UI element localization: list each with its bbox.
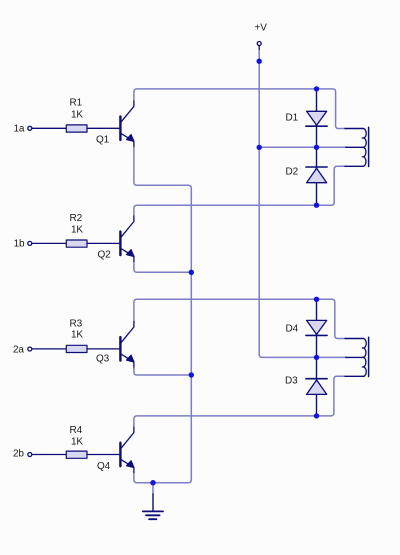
wire Q4 collector to node D <box>134 376 346 426</box>
wire diode branch D1 D2 <box>316 89 318 205</box>
resistor R1 <box>66 125 87 132</box>
junction winding 2 center tap at diode branch <box>314 355 319 360</box>
junction node D (D3 anode) <box>314 413 319 418</box>
svg-text:Q4: Q4 <box>97 461 111 472</box>
svg-text:1K: 1K <box>71 437 83 448</box>
svg-text:1a: 1a <box>14 123 25 134</box>
wire R4 to Q4 base <box>87 454 119 456</box>
transistor Q4 <box>120 426 134 474</box>
svg-text:R2: R2 <box>70 213 83 224</box>
junction node B (D2 anode) <box>314 203 319 208</box>
wire Q1 collector to node A <box>134 89 346 129</box>
resistor R4 <box>66 451 87 458</box>
wire Q2 emitter to common emitter rail <box>134 263 191 273</box>
svg-text:1b: 1b <box>14 238 25 249</box>
wire +V rail down to winding 2 center tap <box>259 50 347 358</box>
diode D3 <box>306 379 327 395</box>
resistor R3 <box>66 345 87 352</box>
ground <box>143 494 163 519</box>
svg-text:2b: 2b <box>13 449 24 460</box>
svg-text:1K: 1K <box>71 330 83 341</box>
wire Q3 collector to node C <box>134 299 346 338</box>
wire common emitter rail segment <box>190 272 192 375</box>
junction +V stub <box>257 59 262 64</box>
svg-text:R3: R3 <box>70 318 83 329</box>
junction common emitter rail Q1 Q2 <box>189 270 194 275</box>
transistor Q1 <box>120 100 134 148</box>
svg-text:2a: 2a <box>13 344 24 355</box>
wire common emitter rail to ground run <box>153 375 191 483</box>
svg-text:Q2: Q2 <box>98 250 112 261</box>
svg-text:Q1: Q1 <box>96 135 110 146</box>
svg-text:D4: D4 <box>286 323 299 334</box>
svg-text:+V: +V <box>255 23 268 34</box>
wire Q1 emitter to common emitter rail <box>134 148 191 273</box>
diode D2 <box>306 167 327 183</box>
wire 2b to R4 <box>32 454 66 456</box>
svg-text:R4: R4 <box>70 425 83 436</box>
wire R3 to Q3 base <box>87 348 119 350</box>
transistor Q2 <box>120 215 134 263</box>
resistor R2 <box>66 240 87 247</box>
input terminal 2a <box>28 347 32 351</box>
wire ground stub <box>152 483 154 494</box>
inductor winding 1 (motor coil L1) <box>345 127 369 166</box>
input terminal 2b <box>28 453 32 457</box>
wire Q4 emitter to ground node <box>134 474 153 483</box>
input terminal 1b <box>28 241 32 245</box>
input terminal 1a <box>28 126 32 130</box>
svg-text:D3: D3 <box>285 376 298 387</box>
svg-text:D1: D1 <box>286 113 299 124</box>
transistor Q3 <box>120 320 134 368</box>
junction common emitter rail Q3 <box>189 372 194 377</box>
wire 1b to R2 <box>32 242 66 244</box>
svg-text:1K: 1K <box>71 225 83 236</box>
wire Q2 collector to node B <box>134 166 346 215</box>
wire R2 to Q2 base <box>87 242 119 244</box>
junction winding 1 center tap at diode branch <box>314 145 319 150</box>
wire Q3 emitter to common emitter rail <box>134 368 191 375</box>
diode D1 <box>306 111 327 126</box>
power terminal +V <box>257 42 261 50</box>
wire 1a to R1 <box>32 127 66 129</box>
wire diode branch D4 D3 <box>316 299 318 416</box>
svg-text:1K: 1K <box>71 109 83 120</box>
wire winding 1 center tap <box>259 146 347 148</box>
junction ground node <box>150 480 155 485</box>
svg-text:D2: D2 <box>286 167 299 178</box>
junction node A (D1 anode) <box>314 86 319 91</box>
junction +V to winding 1 center tap <box>257 145 262 150</box>
wire 2a to R3 <box>32 348 66 350</box>
inductor winding 2 (motor coil L2) <box>345 337 369 376</box>
wire R1 to Q1 base <box>87 127 119 129</box>
junction node C (D4 anode) <box>314 297 319 302</box>
diode D4 <box>306 320 327 335</box>
svg-text:R1: R1 <box>70 98 83 109</box>
svg-text:Q3: Q3 <box>96 354 110 365</box>
